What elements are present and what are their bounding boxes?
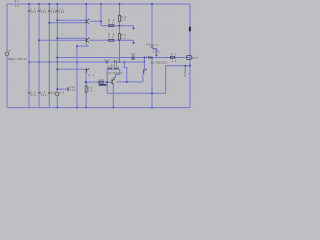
wire feedback bottom run — [107, 92, 166, 94]
connector output terminal — [187, 55, 192, 59]
voltage source V1 — [5, 52, 9, 56]
capacitor C11 plates — [67, 87, 69, 91]
capacitor C3 plates — [48, 10, 51, 11]
wire top rail — [7, 3, 190, 5]
svg-text:104: 104 — [30, 12, 36, 14]
node dot Q2 emitter corner — [76, 45, 78, 47]
wire x=101 from rail — [100, 4, 102, 26]
svg-text:100: 100 — [153, 52, 160, 54]
wire row2 output — [89, 39, 133, 41]
voltage source V2 — [56, 93, 59, 96]
resistor R2 body — [118, 15, 120, 21]
svg-text:FREQ = 1kHz: FREQ = 1kHz — [8, 59, 23, 61]
svg-text:C7: C7 — [114, 59, 120, 61]
wire left vertical to source V1 — [6, 4, 8, 52]
svg-text:104: 104 — [40, 12, 46, 14]
wire row1 end stub — [133, 26, 135, 28]
wire row1 output — [89, 20, 101, 22]
wire row1 upper — [57, 19, 86, 21]
wire V2 junction right — [57, 88, 67, 90]
capacitor C1 plates top — [28, 10, 31, 11]
wire bottom rail — [7, 107, 190, 109]
svg-text:R7: R7 — [171, 55, 177, 57]
capacitor C9 plates bottom x=39 — [38, 92, 41, 93]
transistor Q1 — [86, 19, 90, 24]
wire stub x=185.3 — [184, 66, 186, 73]
capacitor C5 plates in wire A — [149, 56, 151, 59]
resistor R5 body — [99, 81, 104, 83]
node dots top rail — [28, 3, 30, 5]
capacitor C8 plates bottom x=29 — [28, 92, 31, 93]
wire V1 to bottom rail — [6, 56, 8, 108]
resistor R6 body — [85, 86, 87, 92]
wire row2 upper — [57, 37, 86, 39]
node row2 end — [133, 42, 135, 44]
svg-text:10u: 10u — [41, 95, 47, 97]
node row1 end — [133, 27, 135, 29]
capacitor C10 plates bottom x=49.3 — [48, 92, 51, 93]
node dots wire A — [56, 57, 58, 59]
wire x=144 from wire A — [143, 58, 145, 70]
wire F output row — [166, 65, 190, 67]
wire D Q3 base run — [84, 81, 112, 83]
net label bar — [99, 84, 107, 86]
node dots wire B — [28, 61, 30, 63]
node dot wire C — [56, 68, 58, 70]
wire collector Q1 — [85, 4, 87, 19]
node dot V2 junction — [56, 88, 58, 90]
node dots row2 — [56, 37, 58, 39]
node dots wire D — [85, 81, 87, 83]
svg-text:10u: 10u — [70, 90, 76, 92]
wire Q4 emitter down — [85, 73, 87, 82]
wire Q3 emitter to rail — [112, 85, 114, 108]
wire Q6 emitter down — [142, 74, 144, 82]
wire mid row — [107, 68, 120, 70]
node dots bottom rail — [57, 107, 59, 109]
wire feedback vertical x=107.7 — [106, 82, 108, 93]
svg-text:OUT: OUT — [192, 58, 199, 60]
wire Q2 emitter horizontal — [77, 45, 89, 47]
svg-text:10u: 10u — [153, 49, 159, 51]
capacitor C5 vertical line x=152 — [151, 4, 153, 49]
wire Q1 emitter to Q2 — [85, 24, 87, 38]
svg-text:C5: C5 — [153, 45, 159, 47]
wire S-bend from wire B down — [124, 62, 127, 82]
jog wire to x=156.4 — [152, 49, 156, 55]
svg-text:104: 104 — [59, 12, 65, 14]
resistor R1 body — [109, 25, 114, 27]
wire row2 end stub — [133, 40, 135, 42]
capacitor dark on right vertical — [189, 27, 191, 32]
svg-text:C11: C11 — [70, 87, 76, 89]
resistor R3 body — [109, 39, 114, 41]
transistor Q2 — [86, 38, 90, 43]
capacitor C12 plates in wire A at x=133 — [132, 55, 134, 58]
wire C — [57, 68, 86, 70]
resistor R4 body — [118, 34, 120, 40]
capacitor C5 plates — [151, 46, 154, 48]
wire B bias bus — [29, 61, 144, 63]
wire A main bus — [57, 57, 190, 59]
staircase to Q3 collector — [113, 69, 119, 79]
wire x=152 below bus A — [151, 58, 153, 108]
wire x=77 emitter to ground rail — [76, 46, 78, 108]
resistor R7 body in wire A — [170, 56, 175, 58]
wire Q2 emitter down — [85, 42, 87, 46]
capacitor C4 line x=57.3 — [56, 4, 58, 92]
wire row1 lower — [49, 22, 86, 24]
transistor Q3 — [112, 79, 116, 85]
wire mid link from base node up — [106, 69, 108, 82]
capacitor C6 plates on wire B — [106, 60, 108, 63]
node dot feedback — [151, 92, 153, 94]
svg-text:104: 104 — [51, 12, 57, 14]
capacitor C2 line x=39 — [38, 4, 40, 108]
resistor R6 line below Q4 — [85, 82, 87, 108]
wire feedback vertical x=165.7 — [165, 66, 167, 94]
node dots wire F — [184, 65, 186, 67]
wire Q3 right to Q6 — [116, 81, 143, 83]
transistor Q6 — [143, 69, 147, 74]
wire row1 resistor run — [101, 25, 134, 27]
resistor R2 line x=119.5 — [119, 4, 121, 62]
small component on x=156.4 — [155, 54, 157, 55]
capacitor C3 line x=49.3 — [48, 4, 50, 108]
capacitor C4 plates — [56, 10, 59, 11]
capacitor C2 plates — [38, 10, 41, 11]
node dots row1 — [56, 19, 58, 21]
svg-text:10u: 10u — [31, 95, 37, 97]
wire row2 lower — [39, 39, 86, 41]
capacitor C7 plates on wire B — [115, 60, 117, 63]
wire right vertical — [189, 4, 191, 108]
svg-text:Q2 2N2222C: Q2 2N2222C — [151, 62, 168, 64]
transistor Q4 — [86, 68, 90, 73]
svg-text:C6: C6 — [105, 59, 111, 61]
capacitor C1 line x=29 — [28, 4, 30, 108]
